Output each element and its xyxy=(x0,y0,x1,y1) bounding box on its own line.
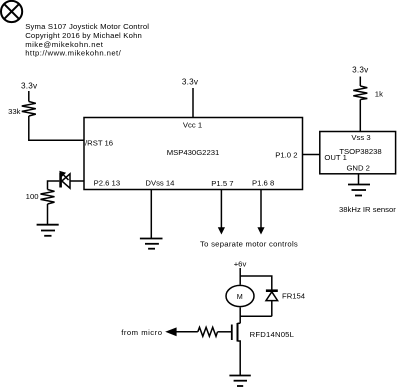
resistor R 33k xyxy=(8,102,36,117)
LED cathode bar xyxy=(59,173,62,188)
svg-text:3.3v: 3.3v xyxy=(352,65,369,74)
svg-text:Vcc 1: Vcc 1 xyxy=(183,120,202,129)
svg-text:3.3v: 3.3v xyxy=(182,78,199,87)
triangle xyxy=(266,292,278,301)
ground (MOSFET source) xyxy=(229,376,250,387)
resistor R gate xyxy=(198,327,218,336)
LED arrow xyxy=(62,173,69,180)
wire Vcc xyxy=(192,88,194,118)
wire 33k to /RST xyxy=(29,116,84,140)
ground (pot) xyxy=(37,225,59,236)
wire xyxy=(359,77,361,87)
transistor Q1 RFD14N05L xyxy=(232,323,295,376)
wire P1.0 to OUT xyxy=(303,154,320,156)
motor M1 xyxy=(226,285,254,306)
wire IC P2.6 to LED xyxy=(70,180,84,182)
channel bar xyxy=(237,323,239,342)
wire DVss to ground xyxy=(150,190,152,239)
svg-text:DVss 14: DVss 14 xyxy=(145,179,175,188)
svg-text:P1.0 2: P1.0 2 xyxy=(275,150,297,159)
resistor R 100 xyxy=(26,190,55,205)
ground (DVss) xyxy=(140,239,163,249)
resistor R 1k xyxy=(353,86,383,100)
diode D2 FR154 xyxy=(266,291,306,317)
svg-text:FR154: FR154 xyxy=(282,291,306,300)
svg-text:Vss 3: Vss 3 xyxy=(351,133,370,142)
svg-text:from micro: from micro xyxy=(121,328,162,337)
svg-text:OUT 1: OUT 1 xyxy=(324,153,347,162)
net 3.3v (Vcc supply) xyxy=(182,78,199,118)
svg-text:M: M xyxy=(237,292,243,301)
LED D1 xyxy=(48,171,85,190)
arrow P1.5 out xyxy=(218,190,225,235)
wire 100 to ground xyxy=(47,204,49,225)
arrow P1.6 out xyxy=(257,190,264,235)
ground (IR sensor) xyxy=(348,185,370,196)
IC U1 MSP430G2231 xyxy=(84,118,303,190)
gate bar xyxy=(231,325,233,341)
net +6v xyxy=(234,259,247,284)
svg-text:+6v: +6v xyxy=(234,259,247,268)
svg-text:/RST 16: /RST 16 xyxy=(85,139,113,148)
svg-text:P1.5 7: P1.5 7 xyxy=(211,179,233,188)
svg-text:33k: 33k xyxy=(8,107,21,116)
wire xyxy=(28,91,30,102)
svg-text:Syma S107 Joystick Motor Contr: Syma S107 Joystick Motor Control xyxy=(25,22,149,31)
logo crossed-circle xyxy=(1,1,22,22)
wire LED to resistor xyxy=(48,181,60,190)
net 3.3v (IR supply) xyxy=(352,65,369,86)
svg-text:MSP430G2231: MSP430G2231 xyxy=(167,148,220,157)
svg-text:38kHz IR sensor: 38kHz IR sensor xyxy=(339,205,396,214)
wire GND 2 to ground xyxy=(358,174,360,185)
LED triangle xyxy=(62,174,70,188)
svg-text:Copyright 2016 by Michael Kohn: Copyright 2016 by Michael Kohn xyxy=(25,31,142,40)
svg-text:GND 2: GND 2 xyxy=(346,163,370,172)
cathode bar xyxy=(266,289,278,292)
title text block xyxy=(25,22,149,57)
wire 1k to Vss xyxy=(359,100,361,132)
svg-text:3.3v: 3.3v xyxy=(21,82,38,91)
svg-text:P1.6 8: P1.6 8 xyxy=(252,179,274,188)
svg-text:100: 100 xyxy=(26,192,39,201)
svg-text:To separate motor controls: To separate motor controls xyxy=(200,240,298,249)
arrow from micro xyxy=(165,327,198,336)
wire drain node to diode bottom xyxy=(240,315,272,317)
wire gate resistor to gate xyxy=(218,331,232,333)
svg-text:1k: 1k xyxy=(375,89,383,98)
svg-text:mike@mikekohn.net: mike@mikekohn.net xyxy=(25,40,104,49)
wire diode to bottom rail xyxy=(271,301,273,317)
IR sensor U2 TSOP38238 xyxy=(320,132,396,174)
wire +6v down xyxy=(239,268,241,285)
svg-text:http://www.mikekohn.net/: http://www.mikekohn.net/ xyxy=(25,49,121,58)
drain lead xyxy=(238,322,241,324)
wire +6v junction to diode top xyxy=(240,276,272,290)
svg-text:P2.6 13: P2.6 13 xyxy=(94,179,121,188)
source lead xyxy=(238,341,241,376)
svg-text:RFD14N05L: RFD14N05L xyxy=(250,330,295,339)
net 3.3v (left supply) xyxy=(21,82,38,102)
wire motor to drain node xyxy=(239,307,241,323)
